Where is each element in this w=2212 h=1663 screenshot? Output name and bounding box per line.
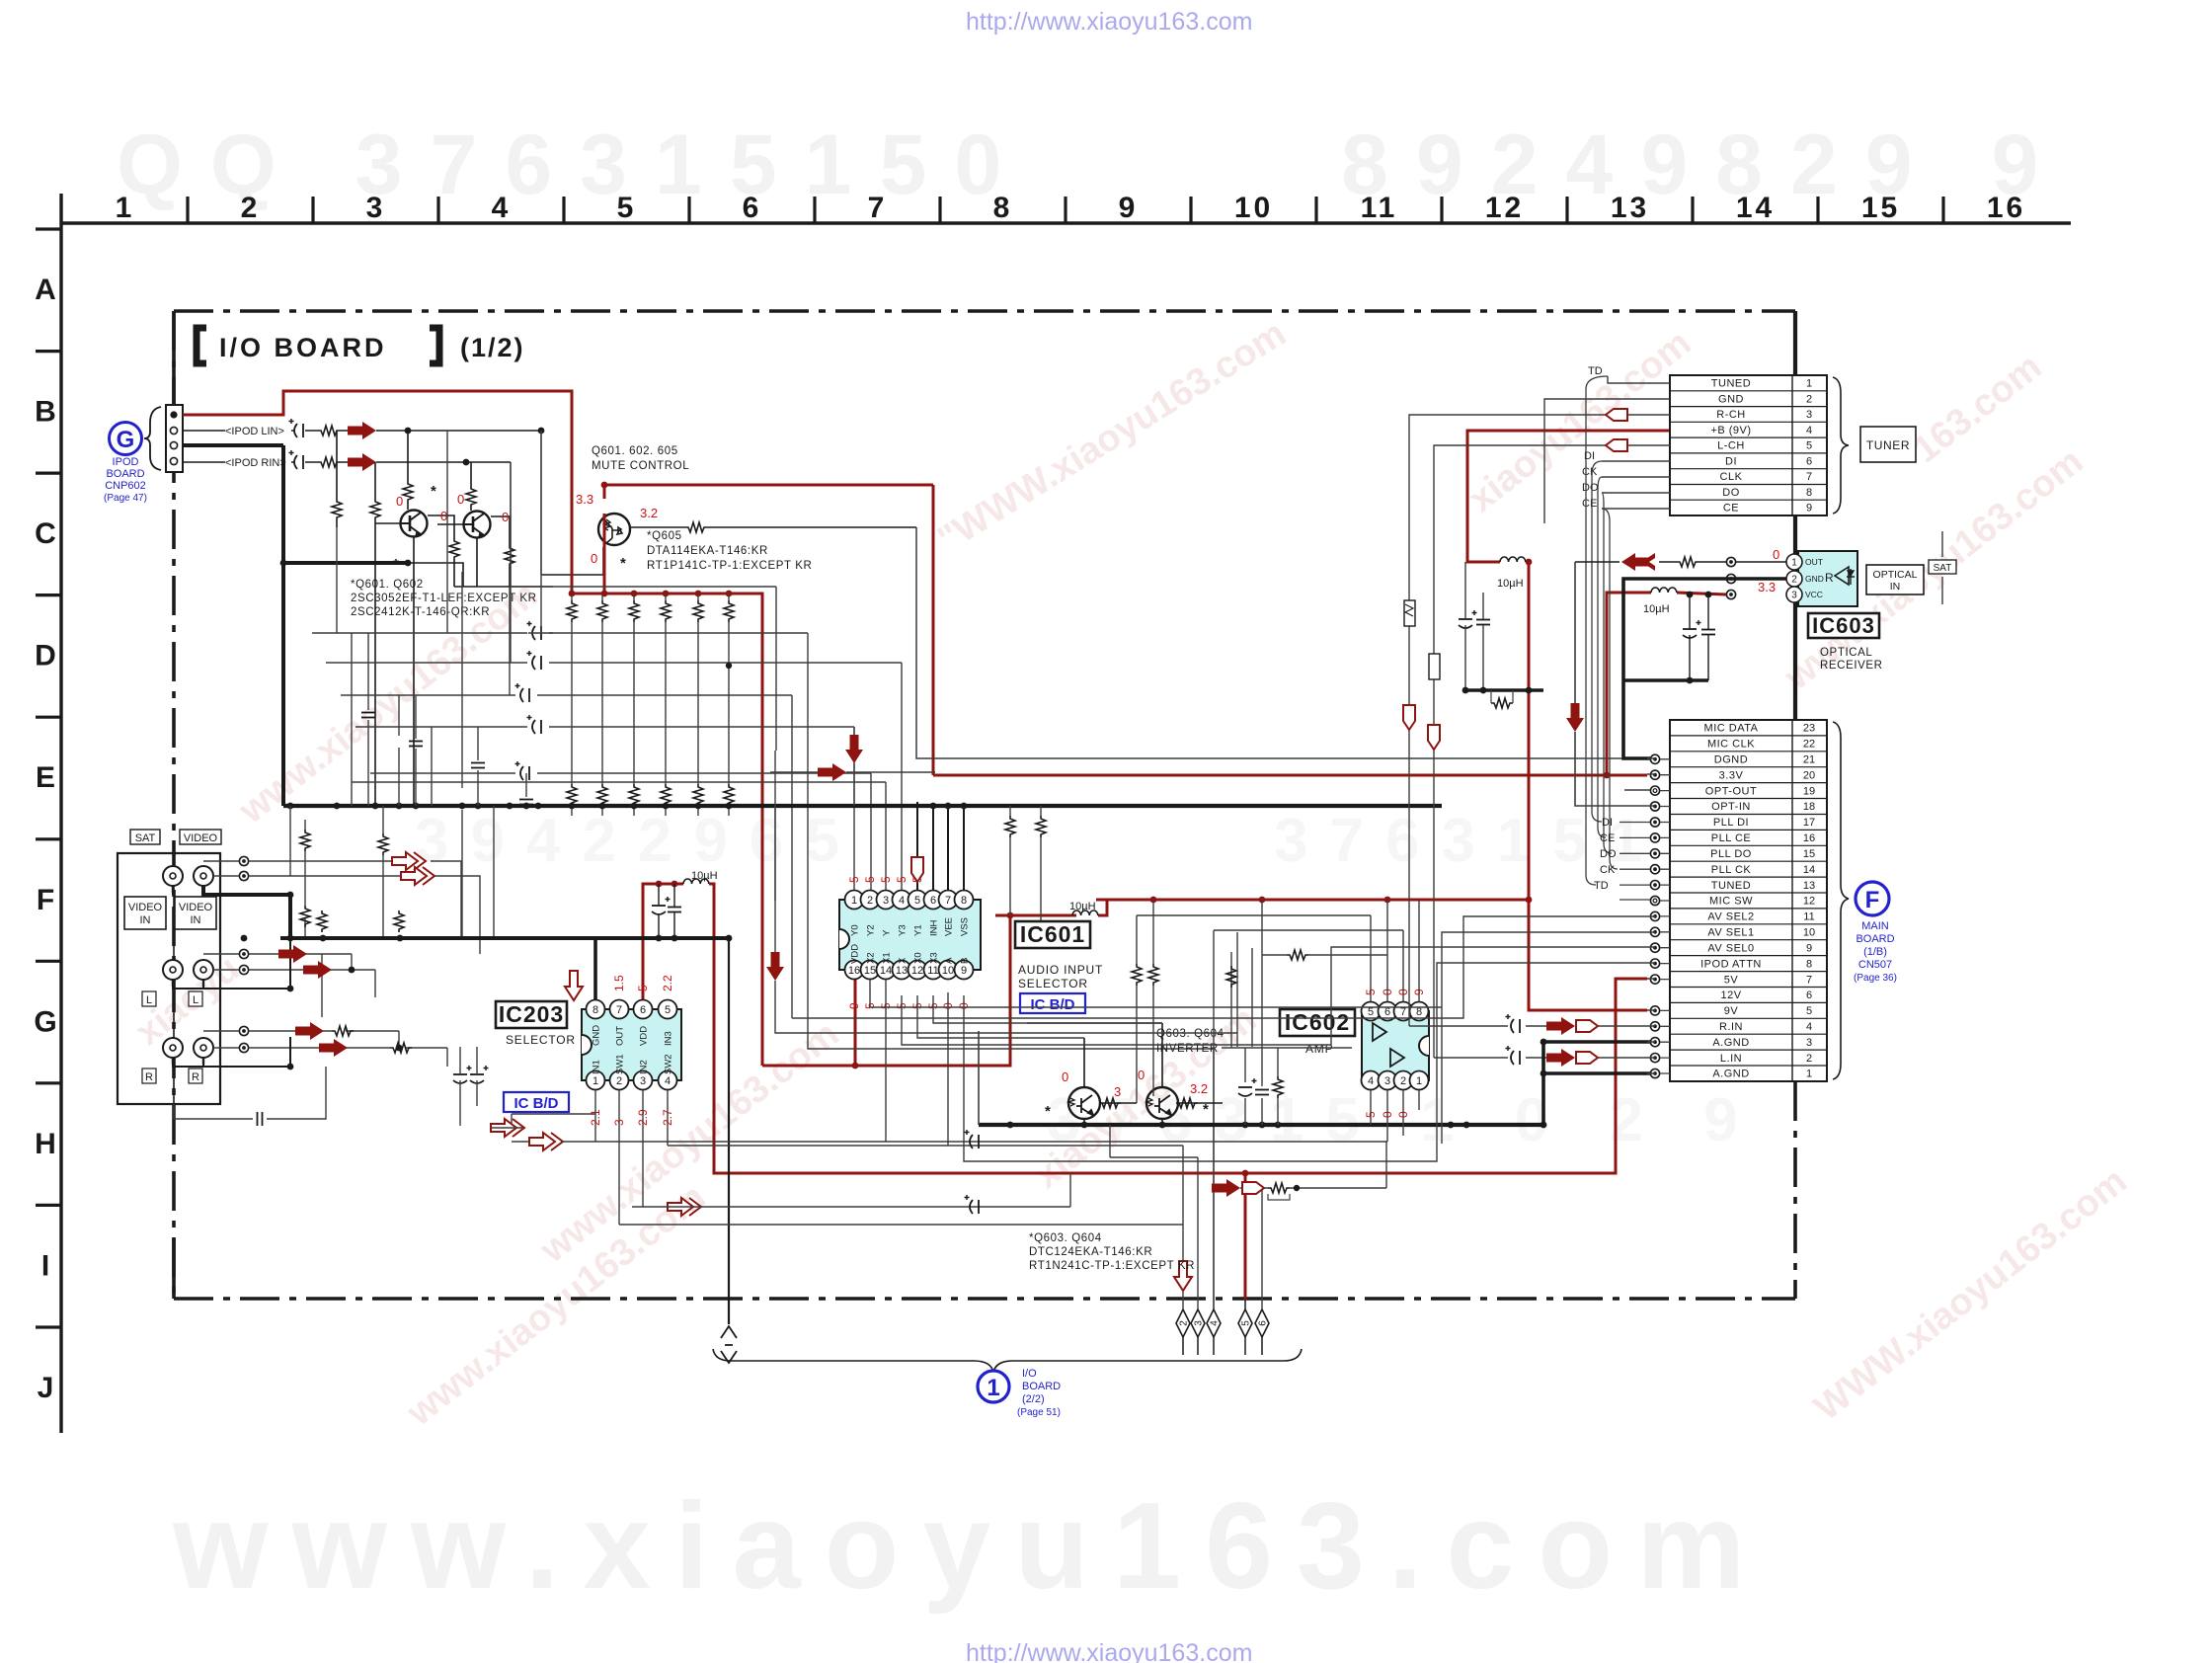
svg-text:3.3: 3.3 <box>1758 580 1776 594</box>
wires jack rows <box>174 861 480 1119</box>
svg-text:*: * <box>431 483 436 500</box>
svg-text:16: 16 <box>1803 832 1815 844</box>
svg-text:4: 4 <box>1806 1021 1812 1033</box>
svg-text:3.2: 3.2 <box>640 506 658 520</box>
svg-text:SW2: SW2 <box>664 1054 674 1074</box>
resistor RB3 <box>629 600 639 622</box>
red net mute bus with resistor taps <box>572 485 1726 1066</box>
op-amp U IC203 selector <box>582 1009 681 1080</box>
svg-text:*Q605: *Q605 <box>647 530 682 542</box>
main table pads <box>1650 754 1659 763</box>
wire ic601 pin5/inh vss feeds <box>917 802 964 890</box>
svg-text:4: 4 <box>1210 1320 1221 1326</box>
svg-text:R.IN: R.IN <box>1719 1021 1743 1033</box>
svg-text:TD: TD <box>1594 880 1609 892</box>
svg-text:5: 5 <box>847 876 861 883</box>
svg-text:I: I <box>41 1249 49 1282</box>
resistor R607 <box>449 538 459 560</box>
label box IC B/D (ic601) <box>1020 993 1085 1013</box>
resistor RC2 <box>597 784 607 806</box>
junction dots lin/rin <box>280 428 545 567</box>
thick wire ic203 pin8 gnd <box>593 938 597 999</box>
svg-text:A.GND: A.GND <box>1712 1037 1749 1049</box>
pad stubs to table <box>1660 759 1670 1073</box>
wire dgnd long run <box>916 527 1623 758</box>
svg-text:14: 14 <box>1736 192 1775 224</box>
resistor RB1 <box>567 600 577 622</box>
thick gnd segment from connector <box>183 445 408 563</box>
svg-text:IC203: IC203 <box>499 1001 564 1027</box>
svg-text:IN3: IN3 <box>664 1031 674 1046</box>
node F page reference circle <box>1856 882 1889 915</box>
svg-text:14: 14 <box>880 965 892 977</box>
svg-text:DTC124EKA-T146:KR: DTC124EKA-T146:KR <box>1029 1246 1152 1258</box>
svg-text:Y: Y <box>882 929 893 936</box>
jack J3 <box>163 960 183 987</box>
off-page diamond 2 <box>1176 1309 1190 1337</box>
svg-text:+B (9V): +B (9V) <box>1710 425 1751 436</box>
svg-text:10µH: 10µH <box>1497 578 1524 590</box>
svg-text:VDD: VDD <box>639 1026 650 1046</box>
svg-text:OPT-OUT: OPT-OUT <box>1705 785 1757 797</box>
svg-text:4: 4 <box>665 1075 671 1087</box>
op-amp U IC601 audio input selector <box>839 900 981 970</box>
svg-text:SELECTOR: SELECTOR <box>506 1033 576 1047</box>
tuner brace <box>1833 377 1849 514</box>
svg-text:4: 4 <box>899 895 905 907</box>
svg-text:B: B <box>35 396 56 429</box>
svg-text:8: 8 <box>961 895 967 907</box>
transistor part number note Q601 Q602 <box>351 579 537 618</box>
capacitor CL3 <box>515 683 530 702</box>
jack J5 <box>163 1038 183 1065</box>
svg-text:DO: DO <box>1600 848 1617 860</box>
svg-text:Y0: Y0 <box>850 924 861 936</box>
arrow+flag 12v row <box>1212 1179 1240 1197</box>
thick gnd path ic603 <box>1623 579 1786 758</box>
transistor Q605 <box>598 514 630 545</box>
resistor Ri2 <box>1148 964 1158 986</box>
resistor RC4 <box>661 784 671 806</box>
ruler row ticks <box>36 229 61 1327</box>
wire y927 run to ic602 <box>1137 900 1419 1309</box>
capacitor CM1 <box>361 713 375 718</box>
svg-text:5: 5 <box>914 895 920 907</box>
svg-text:PLL CK: PLL CK <box>1711 864 1752 876</box>
svg-text:AV SEL0: AV SEL0 <box>1707 942 1754 954</box>
thick jack ground bus <box>203 886 729 938</box>
svg-text:VIDEO: VIDEO <box>184 832 218 844</box>
svg-text:2: 2 <box>1179 1320 1190 1326</box>
svg-text:AMP: AMP <box>1305 1042 1333 1056</box>
svg-text:11: 11 <box>1803 911 1814 923</box>
svg-text:L: L <box>193 994 198 1006</box>
resistor RN2 <box>1036 816 1046 837</box>
svg-text:X3: X3 <box>929 952 940 964</box>
svg-text:TUNED: TUNED <box>1711 880 1751 892</box>
ic602 opamp triangles <box>1373 1023 1404 1067</box>
svg-text:*: * <box>1045 1103 1051 1120</box>
signal arrow rin <box>348 453 376 471</box>
wire cluster bar y1061 <box>1222 1048 1352 1125</box>
svg-text:3: 3 <box>1791 591 1797 601</box>
svg-text:8: 8 <box>1806 958 1812 970</box>
red net ipod 3.3 feed <box>183 391 572 594</box>
svg-text:IC601: IC601 <box>1020 921 1085 947</box>
svg-text:18: 18 <box>1803 801 1815 813</box>
brace io board bottom <box>713 1349 1302 1373</box>
svg-text:X: X <box>898 957 908 964</box>
mid horizontal runs into mesh <box>491 1128 1387 1225</box>
svg-text:1: 1 <box>987 1375 999 1401</box>
svg-text:F: F <box>1865 887 1880 913</box>
wires upper center area <box>511 431 776 901</box>
svg-text:H: H <box>35 1128 56 1160</box>
off-page diamond 3 <box>1191 1309 1205 1337</box>
resistor RN1 <box>1005 816 1015 837</box>
svg-text:9: 9 <box>1119 192 1139 224</box>
svg-text:0: 0 <box>591 551 597 566</box>
svg-text:7: 7 <box>945 895 951 907</box>
svg-text:7: 7 <box>616 1004 622 1016</box>
label box TUNER <box>1860 427 1916 462</box>
inductor L604 10uH tuner <box>1500 557 1526 562</box>
svg-text:Y3: Y3 <box>898 924 908 936</box>
svg-text:9: 9 <box>961 965 967 977</box>
solid right arrow at 782 <box>818 763 846 781</box>
svg-text:L: L <box>146 994 152 1006</box>
svg-text:MAIN: MAIN <box>1861 920 1889 932</box>
svg-text:E: E <box>36 761 55 794</box>
resistor R608 <box>505 545 514 567</box>
svg-text:0: 0 <box>396 494 403 509</box>
capacitor C602 <box>289 450 304 469</box>
wires gnd/rch/lch left of tuner table <box>1409 399 1670 1058</box>
q603 part note <box>1029 1232 1195 1272</box>
svg-text:PLL CE: PLL CE <box>1711 832 1752 844</box>
svg-text:10: 10 <box>1803 927 1815 939</box>
svg-text:BOARD: BOARD <box>1856 933 1894 945</box>
svg-text:10µH: 10µH <box>1643 603 1670 615</box>
pll row labels <box>1594 817 1617 892</box>
svg-text:8: 8 <box>1806 487 1812 499</box>
svg-text:L.IN: L.IN <box>1720 1053 1742 1065</box>
svg-text:5: 5 <box>665 1004 671 1016</box>
svg-text:IN: IN <box>140 914 151 926</box>
svg-text:BOARD: BOARD <box>1022 1381 1061 1392</box>
label box IC B/D (ic203) <box>504 1092 569 1112</box>
brace to G circle <box>144 407 161 470</box>
capacitor Cq2 <box>1255 1090 1269 1095</box>
svg-text:X1: X1 <box>882 952 893 964</box>
left border solid segment <box>172 311 176 1299</box>
thick seg with resistor under tuner filter <box>1465 688 1543 692</box>
off-page diamond 4 <box>1207 1309 1221 1337</box>
svg-text:9V: 9V <box>1724 1005 1739 1017</box>
svg-text:BOARD: BOARD <box>106 468 144 480</box>
red flags down <box>1403 705 1415 730</box>
resistor RC3 <box>629 784 639 806</box>
label box IC602 <box>1280 1009 1355 1036</box>
transistor Q603 <box>1068 1087 1100 1119</box>
connector block sat/video input <box>118 853 220 1104</box>
capacitor Cin <box>258 1112 263 1126</box>
resistor Rj2 <box>390 1043 412 1053</box>
svg-text:D: D <box>35 640 56 673</box>
svg-text:RT1N241C-TP-1:EXCEPT KR: RT1N241C-TP-1:EXCEPT KR <box>1029 1260 1195 1272</box>
svg-text:(2/2): (2/2) <box>1022 1393 1045 1405</box>
svg-text:Q601. 602. 605: Q601. 602. 605 <box>592 445 678 457</box>
wires short stubs right rows <box>1624 758 1655 1073</box>
label box SAT small <box>1929 560 1956 574</box>
svg-text:12V: 12V <box>1720 990 1741 1001</box>
brace main board <box>1833 722 1849 1079</box>
svg-text:MIC DATA: MIC DATA <box>1704 723 1759 735</box>
resistor RB4 <box>661 600 671 622</box>
red pin voltages ic601 bottom <box>847 1002 971 1009</box>
svg-text:16: 16 <box>1987 192 2025 224</box>
svg-text:5: 5 <box>1806 440 1812 452</box>
off-page connector Y symbol <box>721 1326 737 1363</box>
svg-text:*Q603. Q604: *Q603. Q604 <box>1029 1232 1102 1244</box>
svg-text:0: 0 <box>440 509 447 523</box>
svg-text:TUNER: TUNER <box>1866 438 1910 452</box>
svg-text:3.3V: 3.3V <box>1719 769 1744 781</box>
capacitor C604 <box>668 908 681 912</box>
ruler column numbers <box>116 192 2026 224</box>
svg-text:*: * <box>393 556 399 573</box>
svg-text:3: 3 <box>1806 409 1812 421</box>
resistor RB2 <box>597 600 607 622</box>
capacitor Cv2 <box>1701 630 1715 635</box>
svg-text:7: 7 <box>1400 1006 1406 1018</box>
svg-text:Y1: Y1 <box>913 924 924 936</box>
label box IC603 <box>1808 613 1879 638</box>
resistor R604 <box>370 499 380 520</box>
svg-text:4: 4 <box>1368 1075 1374 1087</box>
svg-text:163.com: 163.com <box>1906 346 2050 471</box>
svg-text:I/O: I/O <box>1022 1368 1037 1380</box>
svg-text:6: 6 <box>1258 1320 1269 1326</box>
svg-text:AV SEL2: AV SEL2 <box>1707 911 1754 923</box>
capacitor CL1 <box>527 621 542 640</box>
resistor Rj1 <box>332 1026 354 1036</box>
svg-text:R: R <box>192 1071 199 1083</box>
svg-text:1: 1 <box>116 192 135 224</box>
node G page reference circle <box>110 423 142 455</box>
connector table tuner <box>1670 375 1827 515</box>
pad <box>239 1026 248 1035</box>
wire mesh left verticals <box>290 431 541 1017</box>
svg-text:VDD: VDD <box>850 944 861 964</box>
svg-text:3: 3 <box>366 192 386 224</box>
wire columns right of ic601 <box>1010 806 1041 939</box>
svg-text:8: 8 <box>993 192 1013 224</box>
arrows on input rows <box>278 945 307 963</box>
capacitor CL5 <box>515 761 530 780</box>
svg-text:A: A <box>944 957 955 964</box>
resistor RM1 <box>300 906 310 927</box>
title I/O BOARD (1/2) <box>197 328 525 363</box>
svg-text:3.2: 3.2 <box>1190 1081 1208 1096</box>
node 1 circle io board ref <box>978 1371 1009 1402</box>
svg-text:R: R <box>145 1071 153 1083</box>
svg-text:7: 7 <box>868 192 888 224</box>
svg-text:8: 8 <box>592 1004 598 1016</box>
svg-text:5: 5 <box>617 192 637 224</box>
svg-text:6: 6 <box>1384 1006 1390 1018</box>
white down arrow at ic203 pin8 <box>565 971 583 1000</box>
wire inverter feed columns <box>1137 900 1153 1103</box>
ruler top scale line <box>61 221 2071 224</box>
resistor R609 <box>685 522 707 532</box>
svg-text:0: 0 <box>1062 1069 1068 1084</box>
jack J4 <box>194 960 213 987</box>
connector CNP602 ipod board <box>166 405 183 472</box>
svg-text:CN507: CN507 <box>1858 959 1892 971</box>
wire ipod rin row <box>183 461 511 463</box>
svg-text:B: B <box>960 958 971 964</box>
thick bus inverter gnd <box>979 1123 1543 1127</box>
svg-text:11: 11 <box>927 965 938 977</box>
capacitor Cb1 <box>965 1130 980 1148</box>
svg-text:IN: IN <box>1890 581 1901 593</box>
red voltage labels mute area <box>396 492 658 566</box>
svg-text:20: 20 <box>1803 769 1815 781</box>
svg-text:3: 3 <box>1806 1037 1812 1049</box>
svg-text:12: 12 <box>911 965 923 977</box>
svg-text:2: 2 <box>867 895 873 907</box>
svg-text:www.xiaoyu163.com: www.xiaoyu163.com <box>532 1013 846 1272</box>
svg-text:<IPOD RIN>: <IPOD RIN> <box>225 457 286 469</box>
svg-text:TD: TD <box>1588 365 1603 377</box>
svg-text:IPOD: IPOD <box>113 456 139 468</box>
svg-text:AV SEL1: AV SEL1 <box>1707 927 1754 939</box>
svg-text:1: 1 <box>1806 1069 1812 1080</box>
svg-text:J: J <box>38 1372 54 1404</box>
svg-text:F: F <box>37 884 54 916</box>
svg-text:OUT: OUT <box>1805 557 1823 567</box>
capacitor Ca1 <box>453 1066 472 1083</box>
svg-text:IC B/D: IC B/D <box>514 1095 559 1112</box>
resistor Rq3 <box>1273 1076 1283 1098</box>
svg-text:2SC2412K-T-146-QR:KR: 2SC2412K-T-146-QR:KR <box>351 606 490 618</box>
watermark: pink diagonal texts <box>128 313 2135 1435</box>
svg-text:IN2: IN2 <box>639 1060 650 1074</box>
wires around Q601/Q602 <box>337 431 510 806</box>
resistor RC1 <box>567 784 577 806</box>
svg-text:*: * <box>1203 1101 1209 1118</box>
Q605 internal resistor wire out <box>630 526 916 528</box>
svg-text:2: 2 <box>1791 575 1797 586</box>
svg-text:5: 5 <box>863 876 877 883</box>
svg-text:89249829 9: 89249829 9 <box>1341 118 2066 212</box>
svg-text:SAT: SAT <box>135 832 156 844</box>
resistor Ri4 <box>1226 966 1236 988</box>
svg-text:2: 2 <box>616 1075 622 1087</box>
svg-text:A.GND: A.GND <box>1712 1069 1749 1080</box>
red pin voltages ic601 top <box>847 876 924 883</box>
svg-text:1: 1 <box>592 1075 598 1087</box>
svg-text:A: A <box>35 274 56 306</box>
svg-text:6: 6 <box>930 895 936 907</box>
svg-text:CNP602: CNP602 <box>105 480 146 492</box>
resistor RC6 <box>724 784 734 806</box>
svg-text:5: 5 <box>1368 1006 1374 1018</box>
capacitor C601 <box>289 419 304 437</box>
op-amp U IC602 amp <box>1362 1011 1429 1080</box>
svg-text:5: 5 <box>636 985 650 991</box>
box resistor Rb1 <box>1404 600 1415 626</box>
q605 part note <box>620 530 812 572</box>
jack J2 <box>194 866 213 893</box>
pad <box>239 871 248 880</box>
svg-text:DO: DO <box>1722 487 1740 499</box>
svg-text:Y2: Y2 <box>866 924 877 936</box>
svg-text:10: 10 <box>1234 192 1273 224</box>
transistor Q602 <box>464 512 491 538</box>
red labels q603/q604 <box>1062 1068 1208 1099</box>
svg-text:OPT-IN: OPT-IN <box>1711 801 1751 813</box>
board outline left dash-dot border <box>172 311 176 1299</box>
svg-text:0: 0 <box>1773 547 1779 562</box>
svg-text:DGND: DGND <box>1714 754 1748 766</box>
svg-text:VSS: VSS <box>960 917 971 936</box>
pad <box>239 949 248 958</box>
svg-text:7: 7 <box>1806 471 1812 483</box>
capacitor Cr1 (r.in) <box>1506 1014 1521 1033</box>
svg-text:19: 19 <box>1803 785 1815 797</box>
capacitor Cr2 (l.in) <box>1506 1046 1521 1065</box>
svg-text:3.3: 3.3 <box>576 492 593 507</box>
resistor RM4 <box>394 911 404 932</box>
svg-text:MIC SW: MIC SW <box>1709 896 1753 908</box>
solid down arrows center <box>845 735 863 763</box>
svg-text:X2: X2 <box>866 952 877 964</box>
svg-text:1: 1 <box>1416 1075 1422 1087</box>
svg-text:(Page 36): (Page 36) <box>1854 973 1897 984</box>
svg-text:12: 12 <box>1485 192 1524 224</box>
svg-text:*Q601. Q602: *Q601. Q602 <box>351 579 424 591</box>
svg-text:IN: IN <box>191 914 201 926</box>
resistor R603 <box>332 499 342 520</box>
capacitor CL2 <box>527 651 542 670</box>
ic203 pin wires down <box>512 1090 668 1225</box>
watermark: faint top serial digits <box>117 118 2066 212</box>
wire diamond5 stub <box>1183 1300 1262 1355</box>
resistor RB6 <box>724 600 734 622</box>
ruler row letters <box>34 274 56 1404</box>
signal arrow lin <box>348 422 376 439</box>
capacitor Ct2 <box>1476 620 1490 625</box>
svg-text:IPOD ATTN: IPOD ATTN <box>1700 958 1762 970</box>
svg-text:AUDIO INPUT: AUDIO INPUT <box>1018 963 1103 977</box>
svg-text:IC B/D: IC B/D <box>1031 996 1075 1013</box>
svg-text:(Page 51): (Page 51) <box>1017 1407 1061 1418</box>
tuner signal stub labels <box>1582 365 1603 510</box>
svg-text:15: 15 <box>1861 192 1900 224</box>
svg-text:IC603: IC603 <box>1812 613 1875 638</box>
wire staircase to ic601 inputs <box>312 633 1214 1049</box>
svg-text:L-CH: L-CH <box>1717 440 1745 452</box>
svg-text:G: G <box>117 427 135 453</box>
board outline top dash-dot border <box>174 309 1795 313</box>
svg-text:1: 1 <box>851 895 857 907</box>
transistor Q601 <box>401 511 428 537</box>
capacitor Ca2 <box>470 1066 489 1083</box>
svg-text:6: 6 <box>1806 455 1812 467</box>
wires pll labels to pads <box>1619 823 1650 901</box>
